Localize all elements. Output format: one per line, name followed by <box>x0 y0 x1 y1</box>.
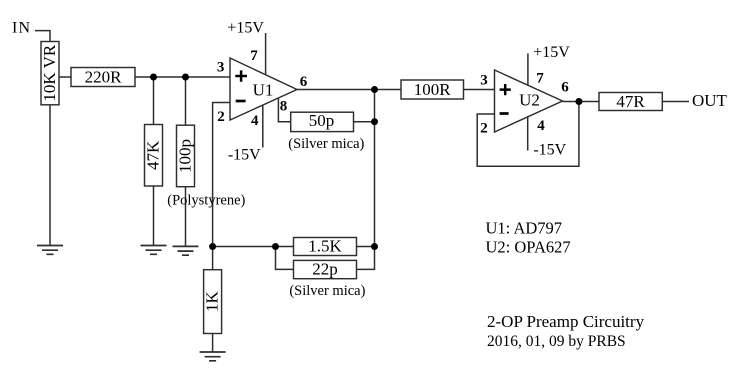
svg-text:OUT: OUT <box>692 91 728 110</box>
svg-text:7: 7 <box>250 48 258 64</box>
svg-text:6: 6 <box>300 74 308 90</box>
svg-text:220R: 220R <box>85 68 123 87</box>
svg-text:2016, 01, 09 by PRBS: 2016, 01, 09 by PRBS <box>487 333 626 350</box>
svg-text:2: 2 <box>217 109 225 125</box>
svg-text:U1: U1 <box>253 80 274 99</box>
svg-text:U2: U2 <box>519 91 540 110</box>
svg-text:U2: OPA627: U2: OPA627 <box>486 238 571 257</box>
svg-text:+15V: +15V <box>227 20 264 37</box>
svg-text:3: 3 <box>217 60 225 76</box>
svg-text:(Polystyrene): (Polystyrene) <box>167 193 245 209</box>
svg-text:1K: 1K <box>202 290 221 312</box>
svg-text:2: 2 <box>480 121 488 137</box>
svg-text:4: 4 <box>251 113 259 129</box>
svg-text:U1: AD797: U1: AD797 <box>486 219 563 238</box>
svg-text:1.5K: 1.5K <box>308 237 342 256</box>
svg-text:100p: 100p <box>175 139 194 173</box>
svg-text:IN: IN <box>12 20 31 37</box>
svg-text:4: 4 <box>537 118 545 134</box>
svg-text:8: 8 <box>280 99 288 115</box>
svg-text:47R: 47R <box>616 92 645 111</box>
svg-text:100R: 100R <box>414 80 452 99</box>
svg-text:10K VR: 10K VR <box>40 44 59 101</box>
svg-text:6: 6 <box>561 80 569 96</box>
svg-text:7: 7 <box>536 71 544 87</box>
svg-text:-15V: -15V <box>228 147 261 164</box>
svg-text:-15V: -15V <box>533 141 566 158</box>
svg-text:22p: 22p <box>312 260 338 279</box>
svg-text:2-OP Preamp Circuitry: 2-OP Preamp Circuitry <box>487 312 645 331</box>
svg-text:(Silver mica): (Silver mica) <box>289 283 365 299</box>
svg-text:47K: 47K <box>143 140 162 170</box>
svg-text:50p: 50p <box>309 111 335 130</box>
svg-text:+15V: +15V <box>533 44 570 61</box>
svg-text:(Silver mica): (Silver mica) <box>288 136 364 152</box>
svg-text:3: 3 <box>480 73 488 89</box>
